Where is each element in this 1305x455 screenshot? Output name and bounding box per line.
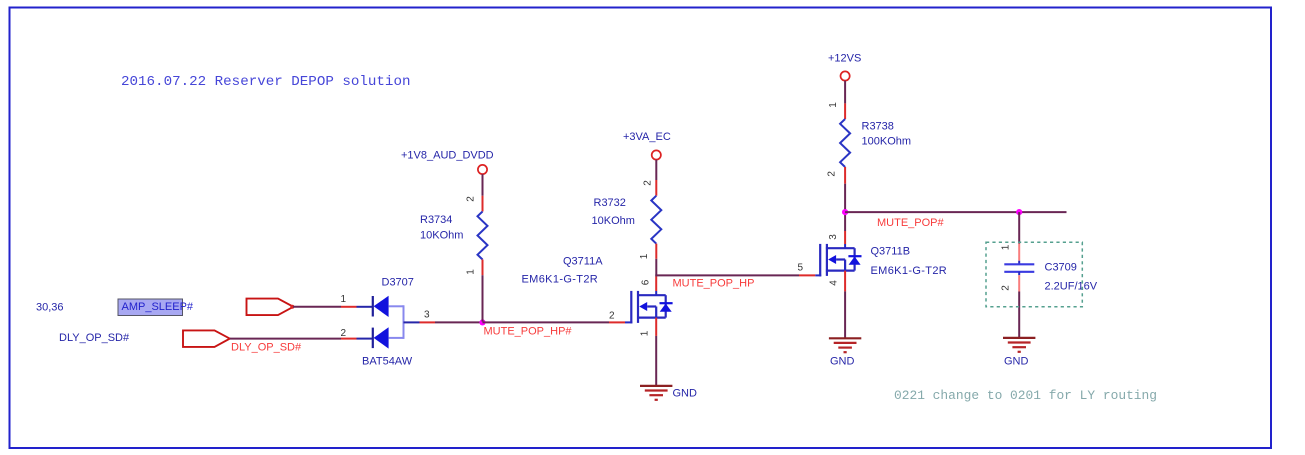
pin 3 lead blue [404, 321, 420, 323]
offpage connector 2 [183, 330, 230, 347]
svg-text:3: 3 [424, 310, 430, 321]
svg-text:MUTE_POP_HP#: MUTE_POP_HP# [484, 326, 573, 338]
wire MUTE_POP_HP# to Q3711A gate [483, 321, 610, 323]
svg-text:2.2UF/16V: 2.2UF/16V [1045, 281, 1098, 293]
Q3711B source lead red [844, 271, 846, 292]
svg-text:R3734: R3734 [420, 214, 452, 226]
svg-text:R3732: R3732 [594, 197, 626, 209]
svg-text:GND: GND [673, 388, 698, 400]
Q3711B gate lead blue [815, 274, 821, 276]
resistor R3734 [478, 212, 488, 260]
junction MUTE_POP# right [1016, 209, 1022, 215]
ground GND C [1003, 338, 1035, 352]
svg-text:2: 2 [827, 171, 838, 177]
capacitor C3709 [1004, 264, 1034, 272]
R3732 pin 2 lead red [655, 180, 657, 196]
diode common link [389, 305, 404, 339]
svg-text:MUTE_POP_HP: MUTE_POP_HP [673, 278, 755, 290]
wire R3738 to junction [844, 184, 846, 212]
R3738 pin 1 lead red [844, 103, 846, 119]
resistor R3732 [651, 196, 661, 244]
Q3711A drain lead red [655, 276, 657, 291]
svg-text:1: 1 [640, 330, 651, 336]
pin 3 lead red [420, 321, 436, 323]
svg-text:100KOhm: 100KOhm [862, 136, 912, 148]
svg-text:MUTE_POP#: MUTE_POP# [877, 217, 945, 229]
ground GND A [640, 386, 672, 400]
Q3711A gate lead red [609, 321, 625, 323]
diode D3707 top [373, 296, 389, 317]
connector 1 hotspot [290, 305, 294, 309]
power symbol +1V8_AUD_DVDD [401, 150, 494, 175]
svg-text:+1V8_AUD_DVDD: +1V8_AUD_DVDD [401, 150, 494, 162]
svg-text:BAT54AW: BAT54AW [362, 356, 413, 368]
svg-text:6: 6 [641, 279, 652, 285]
svg-text:GND: GND [830, 356, 855, 368]
diode D3707 bottom [373, 327, 389, 348]
transistor Q3711A [631, 291, 672, 324]
svg-text:2: 2 [1001, 285, 1012, 291]
power symbol +3VA_EC [623, 131, 671, 160]
svg-text:EM6K1-G-T2R: EM6K1-G-T2R [871, 265, 948, 277]
svg-text:DLY_OP_SD#: DLY_OP_SD# [59, 332, 130, 344]
junction MUTE_POP# left [842, 209, 848, 215]
wire connector2 to D3707 pin2 [230, 338, 341, 340]
wire C3709 to GND [1018, 292, 1020, 338]
wire MUTE_POP# horizontal [845, 211, 1066, 213]
svg-text:2: 2 [609, 311, 615, 322]
svg-text:10KOhm: 10KOhm [420, 230, 463, 242]
svg-text:1: 1 [639, 253, 650, 259]
svg-text:+12VS: +12VS [828, 53, 861, 65]
svg-text:GND: GND [1004, 356, 1029, 368]
pin 1 lead blue [357, 306, 373, 308]
wire connector1 to D3707 pin1 [293, 306, 341, 308]
R3734 pin 2 lead red [482, 196, 484, 212]
svg-text:3: 3 [828, 234, 839, 240]
wire T to Q3711B gate [655, 274, 799, 276]
C3709 pin 1 stub blue [1018, 261, 1020, 264]
svg-text:0221 change to 0201 for LY rou: 0221 change to 0201 for LY routing [894, 388, 1157, 403]
svg-text:Q3711B: Q3711B [871, 246, 911, 258]
svg-text:1: 1 [466, 269, 477, 275]
svg-text:2: 2 [466, 196, 477, 202]
svg-text:10KOhm: 10KOhm [592, 215, 635, 227]
wire power to R3734 [482, 174, 484, 196]
wire Q3711B source to GND [844, 291, 846, 338]
C3709 pin 1 lead red [1018, 244, 1020, 261]
C3709 pin 2 stub blue [1018, 272, 1020, 275]
C3709 pin 2 lead red [1018, 275, 1020, 291]
svg-text:Q3711A: Q3711A [563, 256, 603, 268]
wire R3732 to T junction [655, 259, 657, 277]
transistor Q3711B [820, 244, 861, 277]
highlight box AMP_SLEEP [118, 299, 183, 316]
R3734 pin 1 lead red [482, 260, 484, 276]
wire power to R3732 [655, 160, 657, 180]
svg-text:2: 2 [643, 180, 654, 186]
wire Q3711A source to GND [655, 336, 657, 386]
Q3711B drain lead red [844, 231, 846, 244]
svg-text:1: 1 [1001, 244, 1012, 250]
wire junction to Q3711B drain [844, 212, 846, 231]
svg-text:EM6K1-G-T2R: EM6K1-G-T2R [522, 274, 599, 286]
wire power to R3738 [844, 81, 846, 104]
svg-text:30,36: 30,36 [36, 302, 64, 314]
svg-text:DLY_OP_SD#: DLY_OP_SD# [231, 342, 302, 354]
wire R3734 to junction [482, 275, 484, 321]
pin 1 lead red [341, 306, 357, 308]
svg-text:4: 4 [828, 280, 839, 286]
Q3711A gate lead blue [625, 321, 632, 323]
resistor R3738 [840, 119, 850, 167]
junction MUTE_POP_HP# [479, 319, 485, 325]
Q3711A source lead red [655, 318, 657, 336]
wire junction to C3709 [1018, 212, 1020, 243]
selection dashed box C3709 [986, 242, 1082, 306]
svg-text:1: 1 [828, 102, 839, 108]
pin 2 lead red [341, 338, 357, 340]
svg-text:2016.07.22 Reserver DEPOP solu: 2016.07.22 Reserver DEPOP solution [121, 74, 410, 90]
R3738 pin 2 lead red [844, 167, 846, 184]
svg-text:1: 1 [341, 294, 347, 305]
svg-text:R3738: R3738 [862, 121, 894, 133]
ground GND B [829, 338, 861, 352]
svg-text:+3VA_EC: +3VA_EC [623, 131, 671, 143]
R3732 pin 1 lead red [655, 244, 657, 259]
offpage connector 1 [247, 299, 294, 316]
power symbol +12VS [828, 53, 861, 81]
pin 2 lead blue [357, 338, 373, 340]
svg-text:C3709: C3709 [1045, 262, 1077, 274]
svg-text:D3707: D3707 [382, 277, 414, 289]
Q3711B gate lead red [799, 274, 815, 276]
svg-text:AMP_SLEEP#: AMP_SLEEP# [122, 301, 194, 313]
wire node MUTE_POP_HP# left [435, 321, 483, 323]
svg-text:5: 5 [798, 263, 804, 274]
svg-text:2: 2 [341, 328, 347, 339]
